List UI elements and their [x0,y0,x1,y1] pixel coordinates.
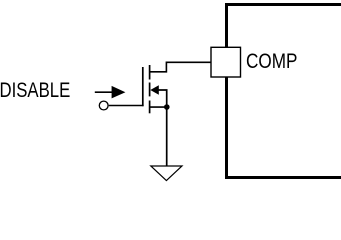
wire: drain to COMP pin [150,62,211,72]
body-to-source tie [158,90,167,107]
input terminal (open circle) [99,101,108,110]
channel segment: body [149,83,151,97]
ground [151,166,182,181]
body arrow [150,85,159,95]
channel segment: source [149,101,151,114]
source lead [150,106,167,108]
junction dot (source/body/ground node) [164,104,170,110]
svg-text:COMP: COMP [246,50,297,73]
signal-flow arrow (into gate) [95,86,126,99]
channel segment: drain [149,65,151,80]
pin box COMP [211,47,241,77]
IC block U1 (device outline, clipped at right edge) [227,5,341,178]
wire: terminal to gate [109,105,144,107]
wire: node to ground [166,107,168,166]
svg-text:DISABLE: DISABLE [0,79,70,102]
transistor Q1 (N-channel MOSFET) [143,65,167,113]
gate bar [142,67,144,106]
